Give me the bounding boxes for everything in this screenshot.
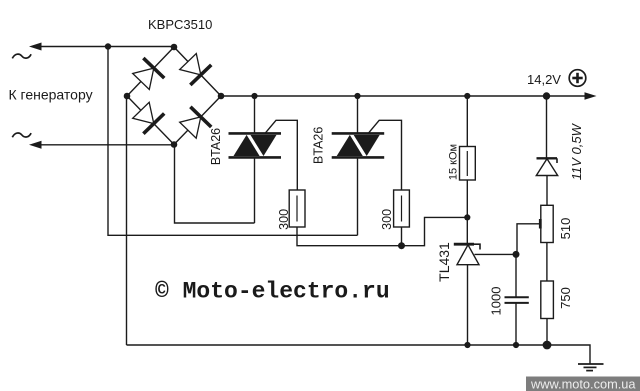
wire: rail to triac 1 MT2 [254, 96, 256, 133]
wire: TL431 ref to divider [475, 253, 517, 255]
diode D3 (lower-left arm) [131, 100, 165, 133]
wire: triac 2 MT1 to bridge AC1 [108, 47, 358, 236]
wire: 510 wiper tap [517, 224, 540, 255]
wire: R2 bottom to junction [401, 227, 403, 246]
node: rail dot at 15k [464, 93, 470, 99]
node: rail dot at zener (output) [543, 92, 550, 99]
trimmer 510 [540, 205, 553, 242]
diode D4 (lower-right arm) [178, 107, 212, 140]
node: rail dot at triac 1 [251, 93, 257, 99]
svg-text:11V 0,5W: 11V 0,5W [569, 122, 584, 180]
wire: zener to 510 [546, 176, 548, 206]
resistor R1 300 [289, 190, 305, 227]
node: TL431 cathode node [464, 214, 470, 220]
node: bus dot capacitor [513, 342, 519, 348]
wire: 750 to ground bus [546, 319, 548, 346]
triac VS2 BTA26 [332, 133, 385, 157]
svg-text:BTA26: BTA26 [311, 127, 325, 164]
resistor 750 [541, 281, 554, 319]
bridge rectifier KBPC3510 arms [127, 47, 221, 145]
triac VS1 BTA26 [229, 133, 282, 157]
node: bridge bottom vertex [171, 141, 178, 148]
wire: triac 1 MT1 to bridge AC2 [175, 145, 255, 224]
wire: triac 2 MT1 down [357, 157, 359, 235]
arrow to generator (bottom) [29, 141, 42, 149]
svg-text:510: 510 [558, 218, 573, 240]
resistor 15 кОм [460, 147, 476, 181]
node: bridge left vertex [124, 93, 131, 100]
node: bus dot 750 [543, 341, 552, 350]
node: junction on AC line 1 [105, 43, 111, 49]
svg-text:BTA26: BTA26 [209, 128, 223, 165]
wire: rail to triac 2 MT2 [357, 96, 359, 133]
svg-text:TL431: TL431 [436, 242, 452, 282]
svg-text:300: 300 [380, 209, 394, 230]
wire: 15k to TL431 [466, 180, 468, 244]
node: gate resistors junction [398, 242, 405, 249]
svg-text:15 кОм: 15 кОм [448, 144, 460, 180]
node: bus dot TL431 anode [464, 342, 470, 348]
wire: capacitor to ground bus [515, 303, 517, 345]
shunt regulator TL431 [454, 244, 480, 265]
AC symbol ~ (top) [12, 54, 31, 58]
svg-text:www.moto.com.ua: www.moto.com.ua [530, 376, 636, 391]
watermark bar [526, 377, 640, 391]
arrow to generator (top) [29, 43, 42, 51]
svg-text:К генератору: К генератору [9, 87, 93, 103]
svg-text:750: 750 [558, 287, 573, 309]
wire: DC+ rail [221, 95, 586, 97]
node: bridge top vertex [171, 44, 178, 51]
node: ref node dot [513, 251, 520, 258]
svg-text:14,2V: 14,2V [527, 72, 561, 87]
svg-text:© Moto-electro.ru: © Moto-electro.ru [155, 279, 390, 305]
capacitor 1000 [505, 297, 529, 303]
wire: AC input line 1 [29, 43, 175, 51]
wire: ref node down to capacitor [515, 254, 517, 297]
diode D2 (upper-right arm) [178, 52, 212, 85]
node: bridge right vertex [218, 93, 225, 100]
svg-text:300: 300 [277, 209, 291, 230]
wire: 510 to 750 [546, 243, 548, 282]
wire: rail to zener [546, 96, 548, 158]
wire: AC input line 2 [29, 141, 174, 149]
wire: junction to TL431 cathode node [402, 217, 468, 245]
plus terminal symbol [569, 70, 586, 87]
wire: triac 1 gate lead [265, 120, 297, 190]
wire: bridge negative down [126, 96, 128, 345]
wire: rail to 15k [466, 96, 468, 147]
ground symbol [578, 364, 604, 371]
svg-text:KBPC3510: KBPC3510 [148, 17, 212, 32]
node: rail dot at triac 2 [354, 93, 360, 99]
AC symbol ~ (bottom) [12, 133, 31, 137]
wire: ground bus [127, 345, 591, 364]
wire: triac 1 MT1 down [254, 157, 256, 223]
zener diode 11V 0,5W [536, 158, 557, 175]
wire: triac 2 gate lead [368, 120, 401, 190]
wire: TL431 anode to ground bus [467, 265, 469, 345]
output arrow [585, 92, 597, 100]
svg-text:1000: 1000 [489, 287, 504, 316]
diode D1 (upper-left arm) [131, 58, 165, 91]
resistor R2 300 [394, 190, 410, 227]
wire: R1 bottom to gate junction [297, 227, 402, 246]
